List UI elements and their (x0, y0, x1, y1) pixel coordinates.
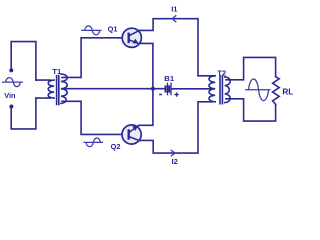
svg-text:Q2: Q2 (111, 142, 121, 151)
svg-text:RL: RL (282, 88, 293, 97)
svg-text:B1: B1 (164, 74, 175, 83)
svg-text:Q1: Q1 (108, 24, 118, 33)
svg-text:I2: I2 (172, 157, 178, 166)
svg-text:Vin: Vin (4, 91, 15, 100)
svg-text:T2: T2 (217, 69, 226, 78)
svg-text:T1: T1 (52, 67, 62, 76)
svg-text:I1: I1 (171, 4, 177, 13)
